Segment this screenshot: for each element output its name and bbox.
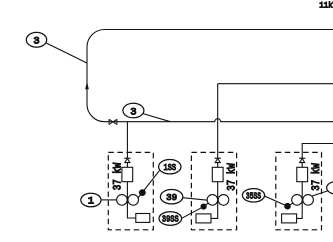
svg-text:1: 1	[88, 196, 94, 208]
switch pivot dot (box 2)	[201, 204, 207, 210]
wire: leader from node 3 to riser	[46, 43, 87, 63]
fuse-switch F2	[215, 158, 221, 162]
wire: main incomer bus (top run, left riser, bottom run with crossover hop)	[87, 30, 333, 122]
svg-text:39: 39	[166, 192, 177, 203]
svg-text:39SS: 39SS	[162, 214, 179, 225]
tag ellipse 1SS	[159, 160, 181, 174]
svg-text:37 kW: 37 kW	[113, 162, 125, 190]
svg-text:37 kW: 37 kW	[311, 163, 323, 191]
starter box M1 (dashed enclosure)	[108, 152, 153, 229]
motor M2 circles	[207, 195, 218, 206]
switch lever to 35SS	[264, 196, 288, 207]
wire: tag 1 to motor M1	[101, 199, 117, 201]
fuse-switch F1	[124, 158, 130, 162]
switch pivot dot (box 1)	[139, 189, 146, 196]
valve/isolator on bottom bus run	[109, 119, 117, 124]
switch lever to 1SS	[138, 171, 159, 198]
fuse-switch F3	[299, 158, 305, 162]
flow arrow on left riser	[85, 81, 89, 89]
wire: tag 39 to motor M2	[183, 198, 208, 201]
svg-text:35SS: 35SS	[246, 190, 261, 201]
tag ellipse 1	[81, 193, 101, 207]
svg-text:3: 3	[33, 36, 39, 48]
overload relay O3	[282, 214, 297, 223]
wire: lever from motor M3 to edge tag	[312, 191, 329, 197]
switch pivot dot (box 3)	[284, 203, 291, 210]
motor M3 circles	[292, 195, 303, 206]
switch lever to 39SS	[182, 205, 206, 218]
contactor K3	[297, 167, 308, 181]
node 3 callout (second)	[123, 103, 144, 118]
tag ellipse 39SS	[159, 212, 182, 226]
svg-text:3: 3	[130, 106, 136, 118]
svg-text:11kV: 11kV	[319, 2, 333, 11]
tag ellipse 39	[160, 190, 182, 204]
contactor K2	[212, 167, 223, 181]
starter box M2 (dashed enclosure)	[191, 152, 236, 229]
starter box M3 (dashed enclosure)	[276, 152, 322, 229]
wire: feeder 3 tap from right edge	[302, 144, 333, 168]
wire: pivot to motor M3 edge	[288, 203, 294, 206]
svg-text:1SS: 1SS	[164, 162, 177, 173]
wire: contactor K1 to motor M1	[127, 182, 135, 218]
overload relay O2	[196, 214, 211, 223]
tag ellipse 35SS	[242, 189, 264, 202]
tag ellipse (clipped at right edge)	[327, 182, 333, 195]
wire: feeder 2 drop to starter 2	[217, 84, 219, 168]
svg-text:37 kW: 37 kW	[227, 163, 239, 191]
overload relay O1	[136, 214, 150, 223]
wire: feeder 1 drop from bottom bus to starter 1	[126, 122, 128, 168]
wire: contactor K2 to motor M2 and overload	[211, 182, 218, 219]
contactor K1	[122, 167, 133, 181]
wire: contactor K3 to motor M3 and overload	[297, 182, 303, 219]
wire: pivot to motor M2 edge	[204, 203, 209, 207]
wire: leader from second node 3 to bottom bus	[143, 114, 170, 122]
wire: feeder 2 bus (horizontal to right edge)	[218, 83, 333, 85]
node 3 callout (upper left)	[26, 32, 46, 47]
motor M1 circles	[117, 195, 128, 206]
